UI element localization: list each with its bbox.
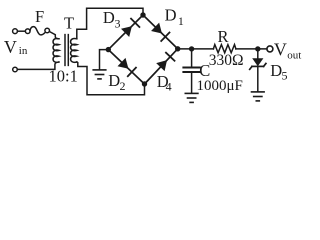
svg-text:in: in xyxy=(19,45,28,57)
svg-text:1: 1 xyxy=(178,14,184,28)
svg-text:10:1: 10:1 xyxy=(49,67,78,86)
svg-text:3: 3 xyxy=(115,17,121,31)
svg-text:D: D xyxy=(108,71,120,90)
svg-text:D: D xyxy=(165,6,177,25)
svg-text:R: R xyxy=(218,27,229,46)
svg-text:T: T xyxy=(64,14,74,33)
svg-text:V: V xyxy=(4,37,17,57)
svg-text:V: V xyxy=(274,40,287,60)
svg-text:D: D xyxy=(103,8,115,27)
svg-text:330Ω: 330Ω xyxy=(209,52,244,69)
svg-text:4: 4 xyxy=(166,80,172,94)
svg-text:1000μF: 1000μF xyxy=(197,78,243,94)
svg-text:D: D xyxy=(270,61,282,80)
svg-text:5: 5 xyxy=(282,68,288,82)
svg-text:2: 2 xyxy=(120,79,126,93)
svg-text:F: F xyxy=(35,7,44,26)
svg-text:out: out xyxy=(287,50,301,62)
